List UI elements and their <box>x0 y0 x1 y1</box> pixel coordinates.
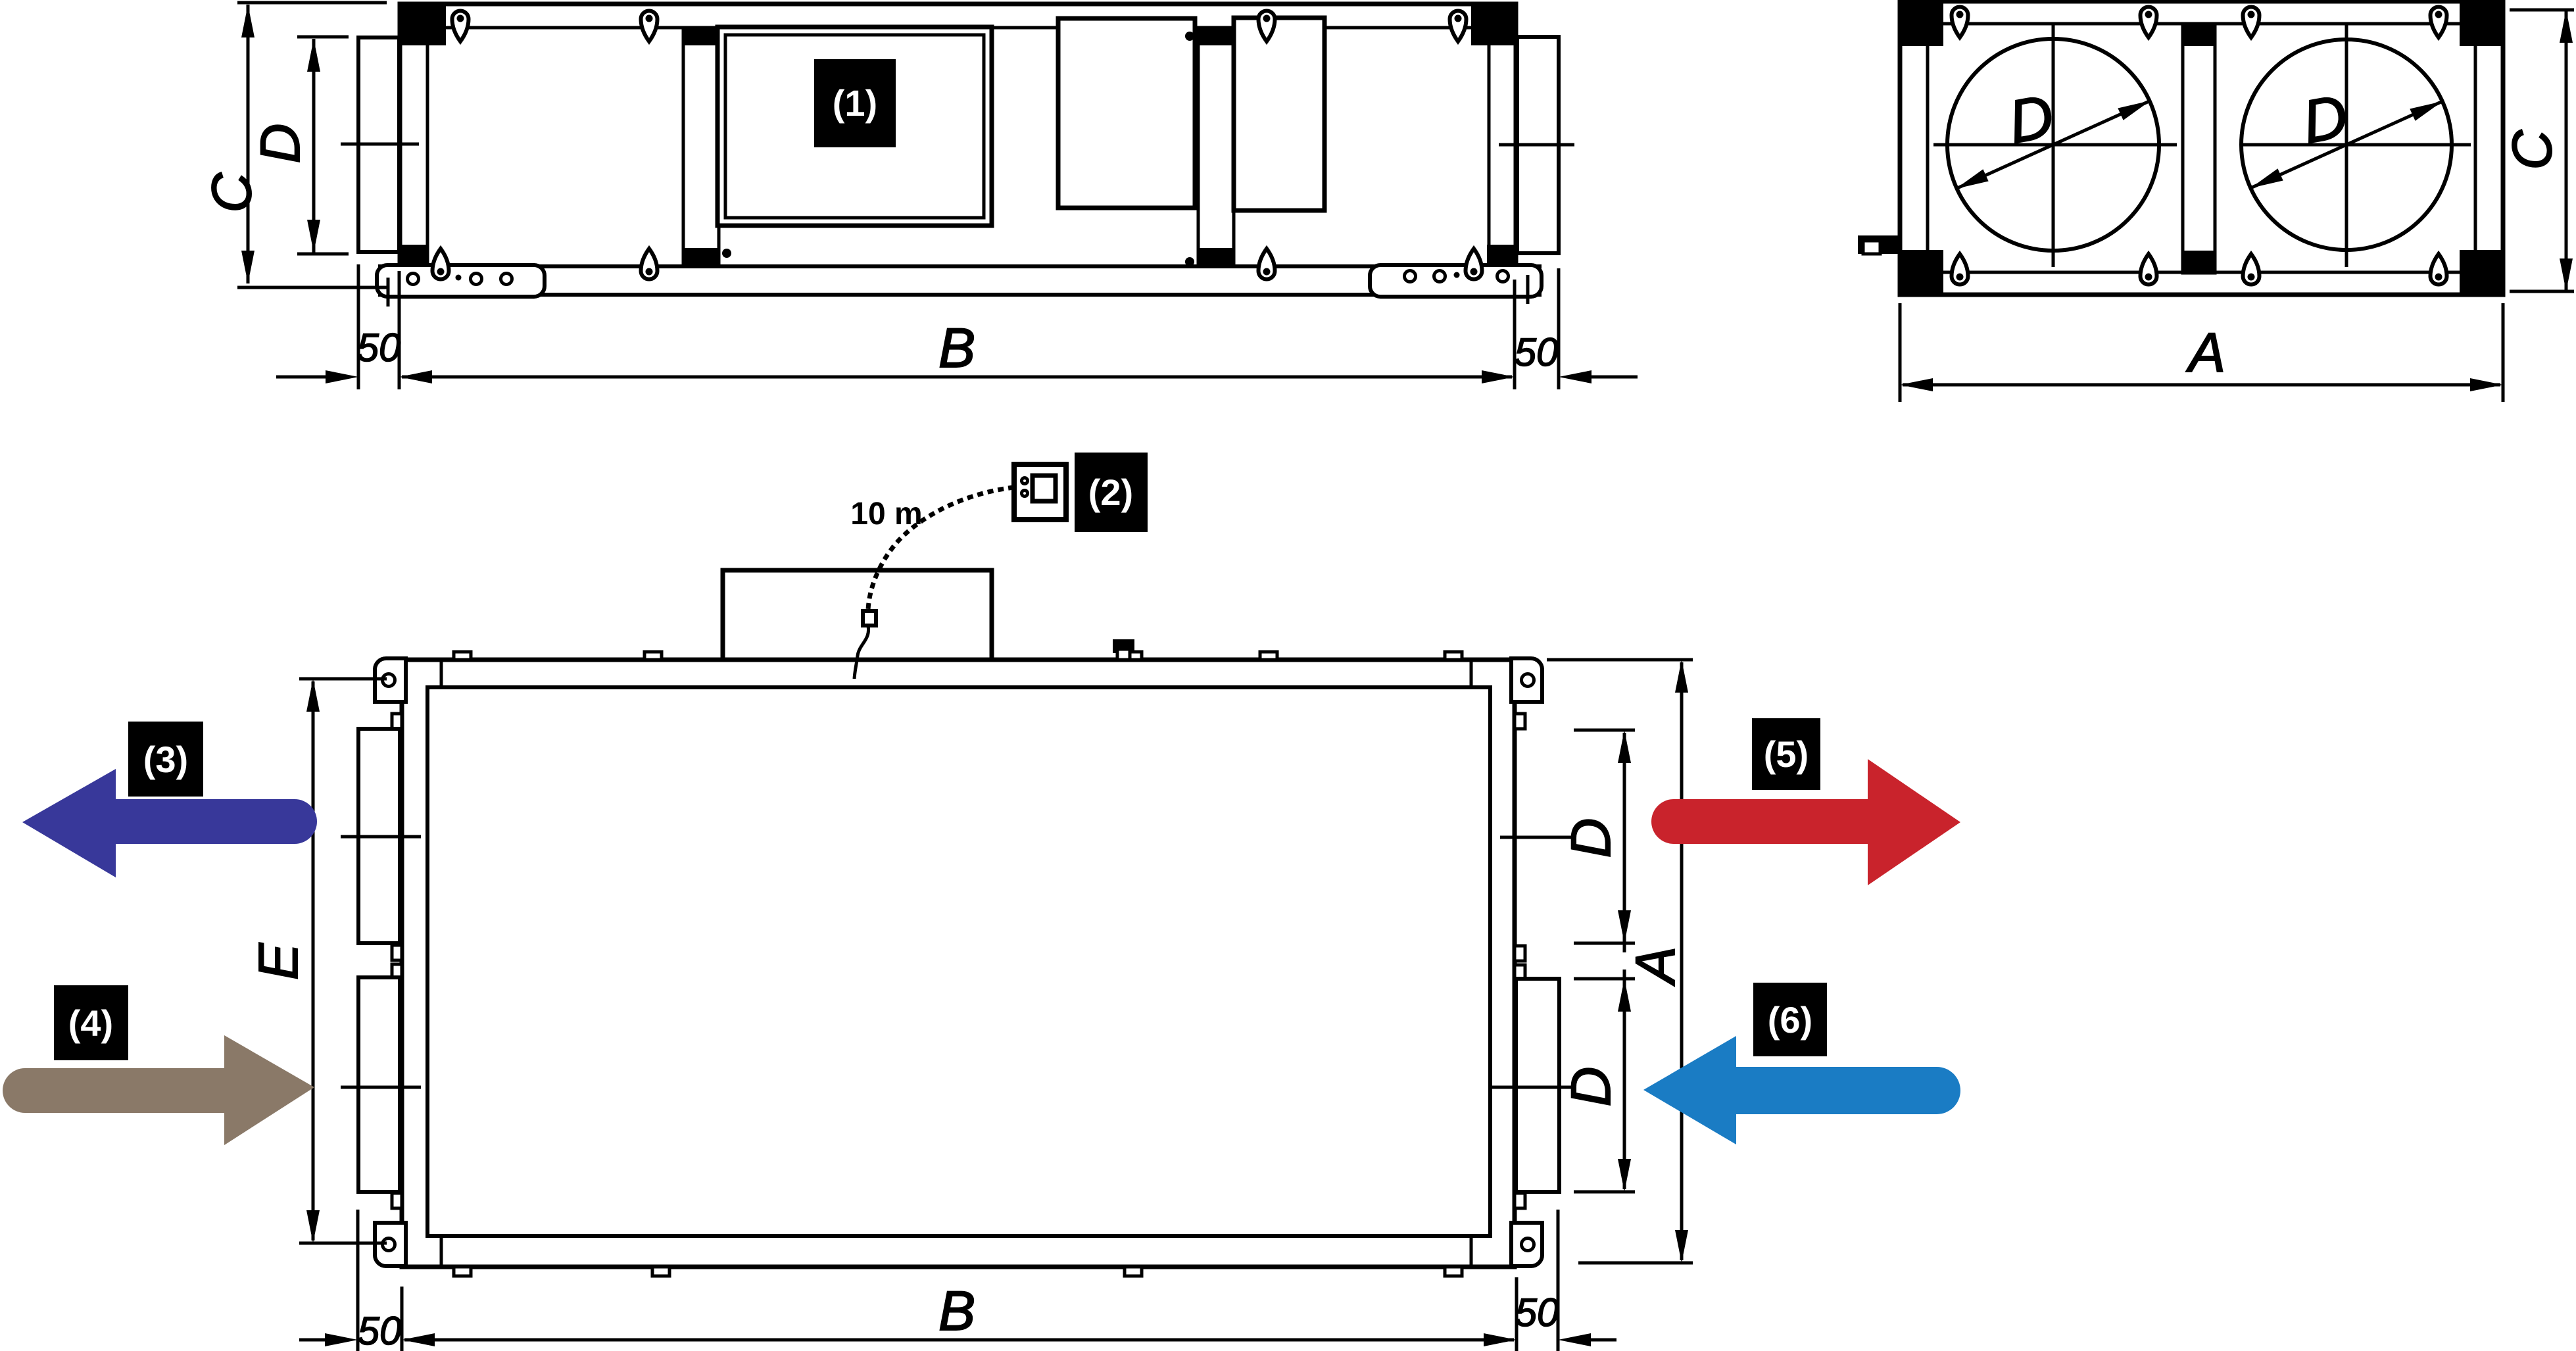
left edge clips <box>392 714 402 729</box>
svg-text:D: D <box>1560 818 1622 858</box>
inner frame rect (end) <box>1928 24 2475 272</box>
label (1) <box>814 59 896 147</box>
B dimension (plan) <box>356 1210 360 1351</box>
exhaust air arrow (3) indigo <box>116 799 317 844</box>
left duct stub (side) <box>358 37 399 252</box>
svg-text:50: 50 <box>1515 330 1559 374</box>
frame joint lines <box>440 660 443 687</box>
svg-text:B: B <box>938 317 975 379</box>
label (2) <box>1075 453 1148 532</box>
inner frame lines (side) <box>427 26 1489 30</box>
outdoor air arrow (4) taupe <box>3 1068 224 1113</box>
unit body outline (plan) <box>402 660 1515 1267</box>
rail tick marks <box>387 278 390 307</box>
cable wave below connector <box>854 626 869 679</box>
svg-text:(5): (5) <box>1764 733 1809 775</box>
electrical box on top <box>723 570 992 660</box>
right diameter arrow <box>2250 101 2442 188</box>
left duct stub lower (plan) <box>358 977 400 1192</box>
right duct stub (side) <box>1517 37 1559 253</box>
hanging tabs bottom (end) <box>1952 254 1968 285</box>
hanging tabs bottom (side) <box>433 249 449 280</box>
inner panel (plan) <box>427 687 1490 1236</box>
svg-text:(2): (2) <box>1088 472 1133 513</box>
left duct stub upper (plan) <box>358 729 400 943</box>
supply air arrow (5) red <box>1651 799 1868 844</box>
corner bracket bottom-right <box>1511 1223 1542 1266</box>
svg-text:A: A <box>2185 322 2225 383</box>
corner block top-left <box>400 2 446 45</box>
partition 2 <box>1198 28 1234 266</box>
AIRFLOW ARROWS GROUP <box>3 718 1960 1145</box>
left diameter arrow <box>1956 101 2151 189</box>
hanging tabs top (end) <box>1952 7 1968 38</box>
cable to controller <box>868 487 1014 610</box>
bottom mounting rail <box>378 264 1542 268</box>
heat exchanger box right <box>1234 18 1324 210</box>
svg-text:E: E <box>247 943 309 980</box>
C dimension (side) <box>237 1 387 5</box>
heat exchanger box left <box>1058 18 1195 208</box>
right duct stub lower (plan) <box>1516 979 1559 1192</box>
C dimension (end) <box>2510 9 2574 12</box>
hanging tabs top (side) <box>452 11 469 42</box>
svg-text:C: C <box>2501 129 2563 170</box>
svg-text:10 m: 10 m <box>850 497 922 531</box>
SIDE VIEW GROUP <box>201 2 1638 389</box>
label (3) <box>128 722 203 797</box>
corner block top-right <box>1471 2 1516 45</box>
svg-text:B: B <box>938 1280 975 1342</box>
label (5) <box>1752 718 1820 790</box>
cable connector <box>863 611 876 626</box>
screw dots <box>722 249 731 258</box>
D dimension (side) <box>297 36 349 39</box>
remote controller icon <box>1014 464 1066 520</box>
partition 1 <box>683 28 719 266</box>
corner blocks (end) <box>1900 1 1943 46</box>
left foot plate <box>377 265 545 297</box>
right fan opening circle <box>2241 39 2452 250</box>
svg-text:(3): (3) <box>143 739 188 780</box>
left stub centre tick <box>341 143 419 146</box>
unit body outline (end) <box>1900 1 2503 295</box>
svg-text:D: D <box>249 124 311 164</box>
right duct opening tick upper <box>1500 836 1573 839</box>
return air arrow (6) blue <box>1736 1067 1960 1114</box>
D dimension lower right <box>1574 977 1635 981</box>
E dimension <box>299 677 387 681</box>
PLAN VIEW GROUP <box>247 453 1693 1351</box>
bottom edge clips <box>454 1267 471 1276</box>
svg-text:(6): (6) <box>1768 999 1812 1041</box>
corner bracket top-left <box>375 658 406 702</box>
access door panel <box>717 27 992 226</box>
corner bracket bottom-left <box>375 1223 406 1266</box>
B dimension (side) <box>357 264 360 389</box>
corner block bottom-left <box>399 245 429 266</box>
svg-text:50: 50 <box>358 1309 402 1351</box>
corner block bottom-right <box>1487 245 1517 266</box>
drain connection <box>1858 235 1900 254</box>
centre partition (end) <box>2183 24 2215 273</box>
svg-text:50: 50 <box>357 326 401 370</box>
unit body outline (side) <box>400 4 1516 266</box>
right edge clips <box>1515 714 1525 729</box>
left fan opening circle <box>1947 39 2159 251</box>
right stub centre tick <box>1499 143 1574 147</box>
svg-text:C: C <box>201 172 262 212</box>
svg-text:(1): (1) <box>833 82 877 124</box>
sensor nub <box>1113 639 1134 653</box>
svg-text:(4): (4) <box>68 1002 113 1044</box>
D dimension upper right <box>1574 729 1635 732</box>
corner bracket top-right <box>1511 658 1542 702</box>
A dimension (end) <box>1899 303 1902 402</box>
svg-text:A: A <box>1624 946 1686 987</box>
END VIEW GROUP <box>1858 1 2574 402</box>
top edge clips <box>454 652 471 660</box>
svg-text:D: D <box>1560 1067 1622 1107</box>
label (6) <box>1753 983 1827 1056</box>
right foot plate <box>1370 265 1542 297</box>
label (4) <box>54 985 128 1060</box>
A dimension (plan) <box>1547 658 1693 662</box>
svg-text:50: 50 <box>1515 1290 1559 1335</box>
